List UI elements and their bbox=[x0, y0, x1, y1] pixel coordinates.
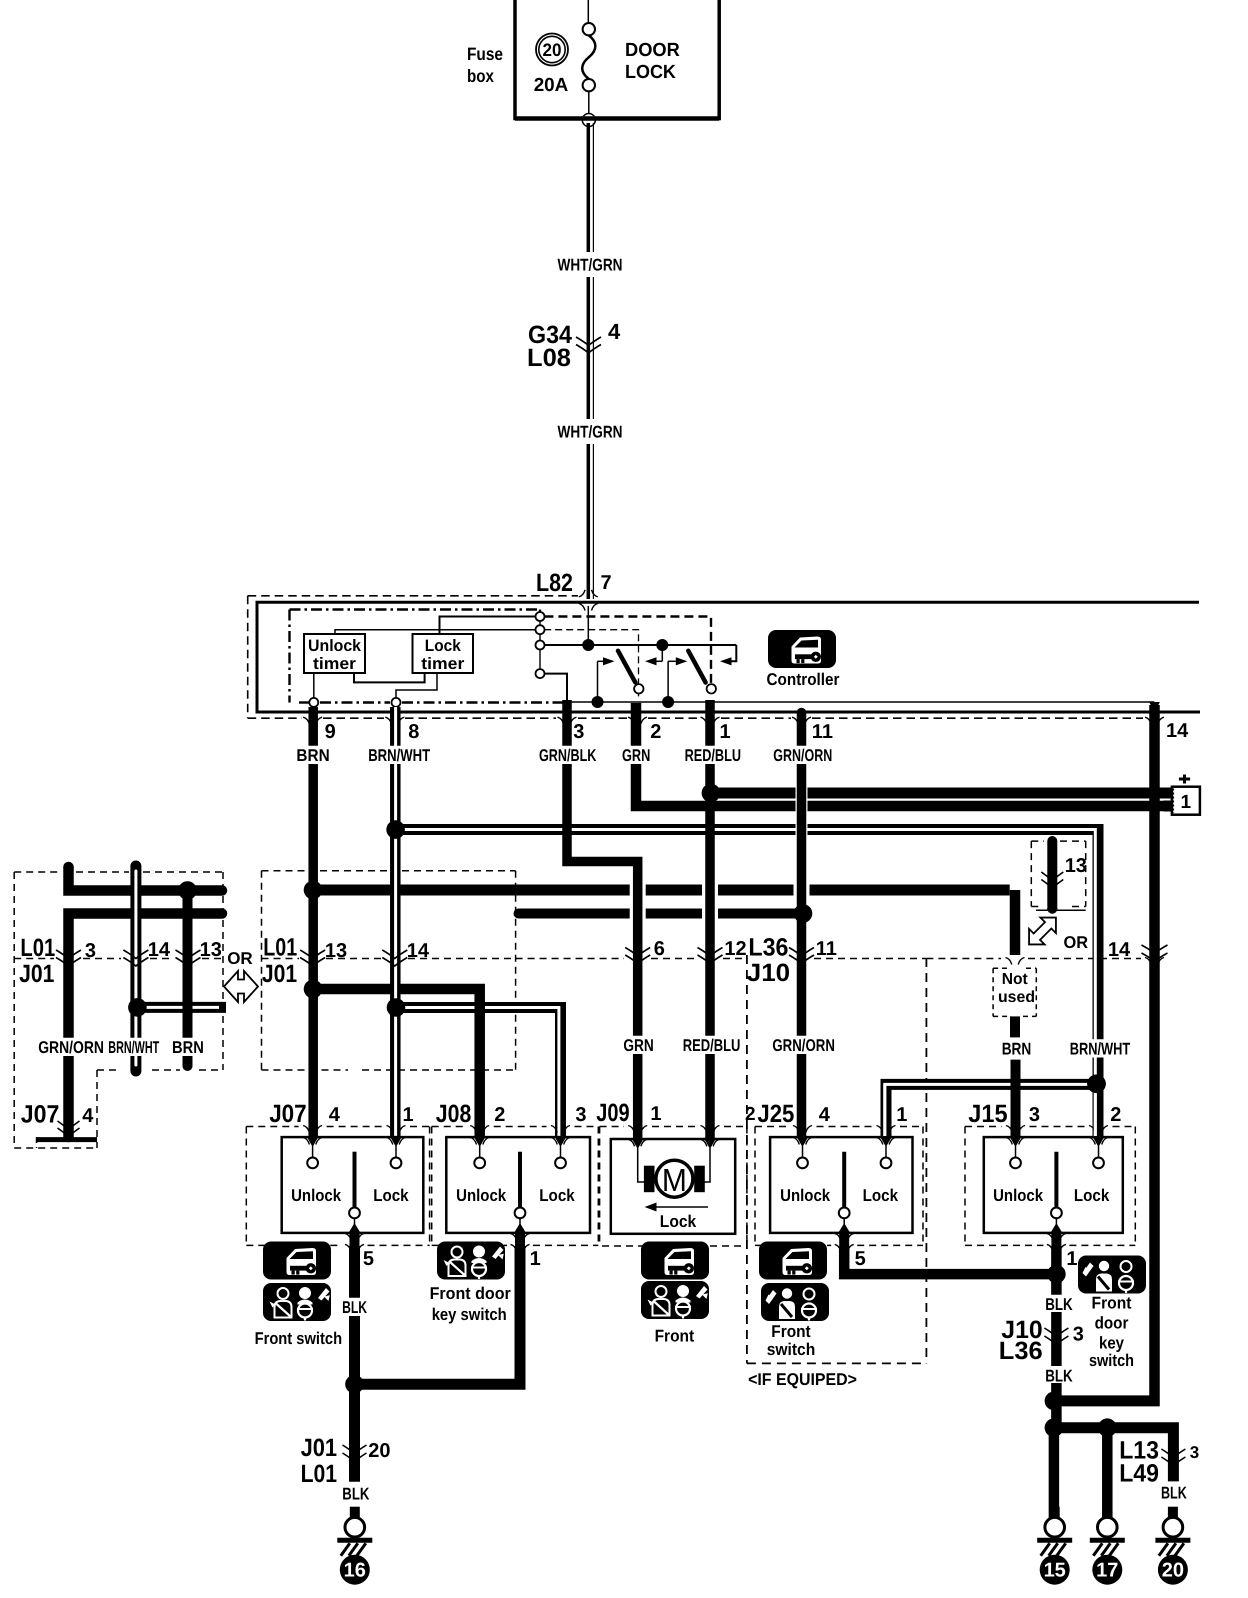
svg-text:Lock: Lock bbox=[373, 1186, 409, 1205]
junction bar1 on BRN left bbox=[178, 881, 197, 900]
svg-text:Unlock: Unlock bbox=[993, 1186, 1043, 1205]
svg-text:4: 4 bbox=[819, 1104, 831, 1126]
svg-text:BLK: BLK bbox=[342, 1298, 368, 1317]
svg-text:4: 4 bbox=[82, 1105, 94, 1127]
bus from wire 14 bbox=[1051, 1395, 1160, 1406]
white core of J25 pin 1 entry bbox=[883, 1084, 886, 1136]
svg-text:<IF EQUIPED>: <IF EQUIPED> bbox=[748, 1370, 857, 1389]
svg-text:Front door: Front door bbox=[430, 1284, 512, 1303]
wire BRN/WHT pin 8 to J07 lock bbox=[390, 707, 401, 1141]
J15 common wire exit pin 1 bbox=[1055, 1218, 1057, 1224]
svg-text:L01: L01 bbox=[263, 934, 297, 962]
connector J10/L36 chevrons bbox=[1044, 1328, 1068, 1337]
svg-text:1: 1 bbox=[1066, 1248, 1077, 1270]
flare below controller top edge at wire 7 bbox=[579, 604, 585, 611]
svg-text:J01: J01 bbox=[262, 960, 297, 988]
J15 common pole bbox=[1054, 1152, 1058, 1208]
svg-text:BLK: BLK bbox=[1161, 1484, 1187, 1503]
J25 common pole bbox=[842, 1152, 846, 1208]
controller pin 8 contact bbox=[392, 698, 401, 707]
svg-text:DOOR: DOOR bbox=[625, 40, 680, 61]
svg-text:4: 4 bbox=[608, 319, 621, 344]
svg-text:J01: J01 bbox=[301, 1434, 338, 1462]
svg-text:J15: J15 bbox=[968, 1100, 1007, 1128]
white core of J15 pin 2 entry bbox=[1094, 1080, 1097, 1136]
bus from J25 pin 5 bbox=[844, 1248, 1056, 1274]
wire BRN pin 9 to J07 unlock bbox=[308, 707, 318, 1141]
svg-text:2: 2 bbox=[1110, 1104, 1121, 1126]
svg-text:GRN/BLK: GRN/BLK bbox=[539, 746, 597, 765]
row wire color labels bbox=[621, 1036, 655, 1054]
J08 switch box bbox=[446, 1137, 590, 1233]
wire lock timer to contact 1 bbox=[440, 617, 536, 635]
left box wire GRN/ORN with top bar bbox=[69, 867, 223, 891]
main row chevrons BRN BRN/WHT bbox=[300, 950, 325, 959]
svg-text:BRN/WHT: BRN/WHT bbox=[1070, 1040, 1131, 1059]
svg-text:J07: J07 bbox=[269, 1100, 307, 1128]
J09 door icon bbox=[641, 1242, 709, 1280]
lock switch pivot bbox=[707, 684, 716, 693]
svg-text:BRN/WHT: BRN/WHT bbox=[108, 1038, 159, 1057]
not used dashed box bbox=[992, 968, 994, 1016]
svg-text:WHT/GRN: WHT/GRN bbox=[558, 423, 623, 442]
J07 common wire exit pin 5 bbox=[354, 1218, 356, 1224]
lock timer box bbox=[413, 634, 474, 673]
svg-text:3: 3 bbox=[85, 940, 96, 962]
svg-text:Front: Front bbox=[771, 1322, 811, 1341]
svg-text:box: box bbox=[467, 66, 494, 86]
svg-text:L08: L08 bbox=[527, 344, 571, 372]
J15 wire entry flares bbox=[1006, 1126, 1012, 1133]
dashed link from unlock output to lock-side switch bbox=[539, 610, 541, 612]
svg-text:13: 13 bbox=[325, 940, 347, 962]
connector 13 alternative dashed box bbox=[1030, 841, 1032, 906]
svg-text:12: 12 bbox=[724, 938, 746, 960]
power rail in controller bbox=[545, 644, 737, 646]
flare where not-used wire meets row bbox=[1006, 958, 1012, 965]
svg-text:2: 2 bbox=[494, 1104, 505, 1126]
svg-text:switch: switch bbox=[767, 1340, 816, 1359]
bus1 BRN distribution bus bbox=[313, 885, 630, 896]
svg-text:3: 3 bbox=[575, 1104, 586, 1126]
svg-text:BRN: BRN bbox=[296, 746, 329, 765]
junction bus3 on BRN bbox=[304, 980, 323, 999]
svg-text:Front switch: Front switch bbox=[255, 1329, 343, 1348]
OR arrow diagonal bbox=[1021, 910, 1063, 952]
svg-text:WHT/GRN: WHT/GRN bbox=[558, 256, 623, 275]
wire from L82 pin 7 into controller bbox=[587, 606, 589, 640]
J08 unlock contact bbox=[474, 1138, 485, 1148]
unlock switch actuator arrow right bbox=[661, 649, 663, 661]
svg-text:14: 14 bbox=[407, 940, 430, 962]
battery connector 1 with + bbox=[1172, 787, 1200, 815]
OR double arrow bbox=[224, 971, 258, 1002]
junction J25/J15 BLK bbox=[1047, 1265, 1066, 1284]
J25 lock contact bbox=[881, 1138, 892, 1148]
J07 door icon bbox=[263, 1242, 331, 1280]
svg-text:1: 1 bbox=[403, 1104, 414, 1126]
svg-text:key switch: key switch bbox=[432, 1305, 507, 1324]
svg-text:OR: OR bbox=[227, 949, 253, 968]
junction to ground 17 branch bbox=[1045, 1418, 1064, 1437]
svg-text:Front: Front bbox=[655, 1327, 695, 1346]
svg-text:Lock: Lock bbox=[1074, 1186, 1110, 1205]
left box wire BRN/WHT hollow bbox=[130, 866, 141, 1071]
fuse box outline bbox=[515, 0, 719, 119]
J08 key switch icon bbox=[437, 1242, 505, 1280]
connector J07 dashed box bbox=[245, 1127, 247, 1246]
motor left brush bbox=[644, 1166, 655, 1193]
junction on rail at lock switch feed bbox=[656, 639, 668, 651]
wire BLK from J08 pin 1 bbox=[515, 1246, 526, 1384]
svg-text:L82: L82 bbox=[536, 569, 573, 597]
GRN bus to battery bbox=[636, 703, 796, 806]
left box wire color labels bbox=[36, 1038, 106, 1056]
svg-text:5: 5 bbox=[363, 1248, 374, 1270]
svg-text:3: 3 bbox=[1190, 1443, 1199, 1462]
J25 common wire exit pin 5 bbox=[843, 1218, 845, 1224]
J25 key icon mirrored bbox=[761, 1283, 829, 1321]
J08 wire entry flares bbox=[470, 1126, 476, 1133]
junction battery bus on RED/BLU bbox=[702, 784, 721, 803]
svg-text:BRN: BRN bbox=[1002, 1040, 1032, 1059]
svg-text:8: 8 bbox=[408, 721, 419, 743]
svg-text:20: 20 bbox=[1162, 1560, 1184, 1582]
controller icon bbox=[768, 630, 836, 668]
svg-text:key: key bbox=[1099, 1334, 1124, 1353]
svg-text:16: 16 bbox=[344, 1560, 366, 1582]
unlock switch pivot bbox=[634, 684, 643, 693]
svg-text:J01: J01 bbox=[19, 960, 54, 988]
svg-text:9: 9 bbox=[325, 721, 336, 743]
svg-text:door: door bbox=[1095, 1314, 1129, 1333]
svg-text:Lock: Lock bbox=[539, 1186, 575, 1205]
svg-text:BRN/WHT: BRN/WHT bbox=[368, 746, 430, 765]
ground 16 bbox=[337, 1507, 372, 1585]
wire label BLK right bbox=[1159, 1483, 1189, 1501]
svg-text:20A: 20A bbox=[534, 75, 569, 96]
main connector dashed box L01/J01 bbox=[261, 871, 263, 1070]
svg-text:13: 13 bbox=[1065, 855, 1087, 877]
svg-text:3: 3 bbox=[1073, 1324, 1084, 1346]
svg-text:1: 1 bbox=[530, 1248, 541, 1270]
svg-text:Controller: Controller bbox=[767, 670, 840, 689]
svg-text:Unlock: Unlock bbox=[308, 637, 362, 655]
wire label BLK bottom left bbox=[340, 1484, 371, 1502]
wire 14 from controller to ground bus bbox=[1149, 702, 1160, 712]
wire label BLK J15 bbox=[1043, 1295, 1075, 1313]
connector J15 dashed box bbox=[964, 1127, 966, 1246]
IF EQUIPED dashed box bbox=[746, 955, 748, 1363]
junction BRN/WHT bus on pin8 wire bbox=[386, 820, 405, 839]
svg-text:BLK: BLK bbox=[1045, 1367, 1073, 1386]
svg-text:J09: J09 bbox=[596, 1099, 629, 1127]
J15 unlock contact bbox=[1010, 1138, 1021, 1148]
svg-text:14: 14 bbox=[1166, 720, 1189, 742]
wire GRN/BLK pin 3 to J09 motor bbox=[567, 700, 638, 1141]
junction of BLK wires bbox=[345, 1375, 364, 1394]
wire WHT/GRN from fuse to L82 (two-tone) bbox=[587, 123, 591, 252]
left box connector chevrons bbox=[56, 950, 81, 959]
internal rail to pin 14 bbox=[545, 674, 568, 702]
bus3 BRN to J08 unlock bbox=[313, 989, 480, 1141]
contact circles column bbox=[539, 621, 541, 625]
junction on rail at incoming power bbox=[582, 639, 594, 651]
svg-text:J08: J08 bbox=[436, 1100, 472, 1128]
svg-text:17: 17 bbox=[1096, 1560, 1118, 1582]
svg-text:RED/BLU: RED/BLU bbox=[685, 746, 741, 765]
svg-text:5: 5 bbox=[855, 1248, 866, 1270]
svg-text:Lock: Lock bbox=[425, 637, 462, 655]
svg-text:7: 7 bbox=[601, 572, 612, 594]
white core of BRN/WHT bus bbox=[402, 828, 796, 831]
J25 switch box bbox=[770, 1137, 912, 1233]
connector J08 dashed box bbox=[431, 1127, 433, 1246]
controller outer dashed box bbox=[248, 595, 578, 597]
wire between timers bbox=[354, 673, 425, 682]
wire BLK to ground 15 bbox=[1049, 1428, 1060, 1518]
svg-text:Front: Front bbox=[1092, 1294, 1132, 1313]
fuse F20 symbol bbox=[587, 0, 589, 23]
junction dots on internal rail bbox=[592, 696, 604, 708]
svg-text:Fuse: Fuse bbox=[467, 44, 503, 64]
svg-text:GRN: GRN bbox=[622, 746, 650, 765]
fuse number circle 20 bbox=[536, 34, 568, 66]
svg-text:3: 3 bbox=[1029, 1104, 1040, 1126]
wire label BLK below connector bbox=[1043, 1366, 1075, 1384]
svg-text:Not: Not bbox=[1002, 971, 1029, 988]
svg-text:GRN: GRN bbox=[623, 1036, 653, 1055]
svg-text:timer: timer bbox=[313, 655, 357, 673]
left box wire BRN bbox=[183, 891, 193, 1067]
J08 lock contact bbox=[555, 1138, 566, 1148]
svg-text:L49: L49 bbox=[1119, 1460, 1159, 1488]
motor right brush bbox=[694, 1166, 705, 1193]
svg-text:11: 11 bbox=[816, 938, 837, 960]
J15 switch box bbox=[984, 1137, 1123, 1233]
wire BLK through J10/L36 bbox=[1051, 1312, 1062, 1366]
junction on left BRN/WHT bbox=[128, 998, 147, 1017]
wire label BRN/WHT right bbox=[1068, 1039, 1133, 1057]
J07 wire entry flares bbox=[303, 1126, 309, 1133]
lock direction arrow bbox=[655, 1206, 708, 1208]
connector J25 dashed box bbox=[754, 1127, 756, 1246]
svg-text:11: 11 bbox=[812, 721, 833, 743]
svg-text:used: used bbox=[998, 989, 1035, 1006]
junction hollow bus J08 on pin8 wire bbox=[387, 998, 406, 1017]
svg-text:timer: timer bbox=[421, 655, 465, 673]
svg-text:14: 14 bbox=[148, 939, 171, 961]
svg-text:1: 1 bbox=[896, 1104, 907, 1126]
svg-text:13: 13 bbox=[200, 939, 222, 961]
J08 common wire exit pin 1 bbox=[519, 1218, 521, 1224]
svg-text:BRN: BRN bbox=[172, 1038, 204, 1057]
J07 switch box bbox=[282, 1137, 424, 1233]
svg-text:BLK: BLK bbox=[1045, 1295, 1073, 1314]
svg-text:J25: J25 bbox=[757, 1100, 794, 1128]
wire lock timer to pin 8 contact bbox=[396, 673, 437, 698]
battery connector stub upper bbox=[1164, 788, 1173, 799]
controller bottom flares at pins bbox=[303, 717, 309, 724]
svg-text:2: 2 bbox=[745, 1104, 756, 1125]
svg-text:Lock: Lock bbox=[660, 1212, 697, 1231]
wire color labels below controller bbox=[294, 746, 331, 764]
lock switch blade bbox=[688, 651, 705, 683]
svg-text:L36: L36 bbox=[748, 934, 788, 962]
controller internal logic dashed box bbox=[288, 610, 290, 703]
svg-text:20: 20 bbox=[543, 40, 562, 60]
J09 wire entry flares bbox=[628, 1126, 634, 1133]
wire BLK to ground 16 bbox=[349, 1384, 360, 1482]
svg-text:GRN/ORN: GRN/ORN bbox=[38, 1038, 104, 1057]
svg-text:GRN/ORN: GRN/ORN bbox=[772, 1036, 835, 1055]
wire BRN to J15 unlock bbox=[1011, 1060, 1021, 1141]
wire BLK to ground 17 bbox=[1102, 1428, 1113, 1518]
svg-text:L36: L36 bbox=[999, 1337, 1043, 1365]
J07 unlock contact bbox=[307, 1138, 318, 1148]
connector 13 chevrons bbox=[1041, 872, 1063, 881]
bus2 junction dot on GRN/ORN bbox=[794, 904, 813, 923]
svg-text:15: 15 bbox=[1044, 1560, 1066, 1582]
svg-text:Lock: Lock bbox=[863, 1186, 899, 1205]
left J07 pin 4 stub dashed edge bbox=[36, 1137, 38, 1148]
svg-text:switch: switch bbox=[1089, 1351, 1134, 1370]
svg-text:3: 3 bbox=[573, 721, 584, 743]
BRN/WHT hollow bus to J08 lock bbox=[396, 1008, 561, 1142]
flare at L82 entry on dashed box bbox=[579, 590, 585, 597]
svg-text:J10: J10 bbox=[747, 959, 790, 987]
wire BRN from bus1 to not used box bbox=[1010, 1016, 1020, 1037]
left alternative connector dashed box L01/J01 bbox=[13, 872, 15, 1148]
svg-text:L01: L01 bbox=[301, 1460, 338, 1488]
junction of BRN/WHT bus corner redraw bbox=[1087, 1075, 1106, 1094]
wire 13 alternative connector bbox=[1047, 841, 1057, 906]
svg-text:OR: OR bbox=[1064, 933, 1089, 952]
wire BLK from J07 pin 5 bbox=[349, 1246, 360, 1390]
J07 pin 5 wire label BLK bbox=[340, 1298, 369, 1316]
junction wire 14 to BLK bbox=[1045, 1392, 1064, 1411]
J07 common pole bbox=[353, 1152, 357, 1208]
svg-text:14: 14 bbox=[1108, 939, 1131, 961]
lock switch actuator arrow left bbox=[667, 661, 669, 700]
BLK bus joining J07 and J08 bbox=[355, 1379, 526, 1390]
J25 wire entry flares bbox=[793, 1126, 799, 1133]
battery connector lower stub bbox=[1164, 801, 1173, 812]
ground 17 bbox=[1090, 1507, 1125, 1585]
left box wire BRN crossing patch bbox=[183, 999, 193, 1016]
wire unlock timer to contact 2 bbox=[335, 630, 536, 634]
svg-text:GRN/ORN: GRN/ORN bbox=[773, 746, 832, 765]
unlock switch actuator arrow left bbox=[597, 661, 599, 700]
unlock timer box bbox=[304, 634, 365, 673]
svg-text:Unlock: Unlock bbox=[780, 1186, 830, 1205]
wire RED/BLU pin 1 to J09 motor bbox=[705, 700, 715, 1141]
bottom connector chevrons bbox=[343, 1445, 367, 1454]
connector row J01/L01 - L36/J10 dashed line bbox=[14, 958, 54, 960]
fuse box exit collar bbox=[582, 114, 595, 127]
wire unlock timer to pin 9 contact bbox=[313, 673, 315, 698]
svg-text:RED/BLU: RED/BLU bbox=[683, 1036, 741, 1055]
J09 key icon bbox=[641, 1281, 709, 1319]
J07 key switch icon bbox=[263, 1283, 331, 1321]
controller inner solid box bbox=[257, 602, 1200, 712]
wire GRN/ORN pin 11 to J25 bbox=[797, 712, 807, 1142]
svg-text:BLK: BLK bbox=[342, 1485, 370, 1504]
row chevrons GRN RED/BLU GRN/ORN bbox=[625, 948, 650, 957]
J09 pin 2 entry bbox=[705, 1140, 716, 1150]
J25 door icon bbox=[759, 1242, 827, 1280]
J08 common pole bbox=[518, 1152, 522, 1208]
J07 lock contact bbox=[391, 1138, 402, 1148]
svg-text:L01: L01 bbox=[20, 934, 55, 962]
J09 motor box bbox=[611, 1139, 735, 1234]
bus2 alternative bus with round start bbox=[514, 909, 524, 919]
svg-text:6: 6 bbox=[654, 938, 665, 960]
wire BLK from J15 pin 1 bbox=[1051, 1246, 1062, 1296]
svg-text:LOCK: LOCK bbox=[625, 62, 676, 83]
door lock motor M bbox=[656, 1160, 693, 1197]
connector L13/L49 chevrons bbox=[1161, 1449, 1185, 1458]
junction bus1 on BRN bbox=[304, 881, 323, 900]
dashed link from lock output to unlock-side switch bbox=[544, 630, 638, 699]
svg-text:Unlock: Unlock bbox=[456, 1186, 506, 1205]
J25 unlock contact bbox=[797, 1138, 808, 1148]
junction of BRN/WHT bus corner bbox=[1087, 1075, 1106, 1094]
left hollow bus stub bbox=[137, 1002, 226, 1013]
unlock switch blade bbox=[618, 651, 635, 683]
connector G34/L08 chevrons bbox=[576, 337, 601, 346]
svg-text:1: 1 bbox=[650, 1103, 661, 1125]
controller pin 9 contact bbox=[309, 698, 318, 707]
svg-text:J07: J07 bbox=[21, 1101, 60, 1129]
bus to L13/L49 and ground 17 bbox=[1054, 1428, 1174, 1482]
battery feed bus from RED/BLU junction bbox=[712, 788, 796, 799]
BRN/WHT bus from pin 8 junction to J25/J15 bbox=[396, 824, 796, 835]
svg-text:20: 20 bbox=[368, 1440, 390, 1462]
connector J09 dashed box bbox=[599, 1127, 601, 1247]
svg-text:1: 1 bbox=[720, 721, 731, 743]
J15 lock contact bbox=[1093, 1138, 1104, 1148]
svg-text:Unlock: Unlock bbox=[291, 1186, 341, 1205]
svg-text:1: 1 bbox=[1181, 792, 1192, 813]
svg-text:M: M bbox=[662, 1162, 687, 1198]
wire label BRN right bbox=[1000, 1039, 1034, 1057]
lock switch actuator arrow right bbox=[720, 657, 732, 665]
J15 key icon mirrored bbox=[1078, 1256, 1146, 1294]
J09 pin 1 entry bbox=[632, 1140, 643, 1150]
svg-text:2: 2 bbox=[650, 721, 661, 743]
wire BLK to junction bbox=[1051, 1383, 1062, 1428]
ground 15 bbox=[1037, 1507, 1072, 1585]
ground 20 bbox=[1155, 1507, 1190, 1585]
svg-text:4: 4 bbox=[329, 1104, 341, 1126]
left box lower bar and wire to J07 stub bbox=[69, 914, 223, 1138]
